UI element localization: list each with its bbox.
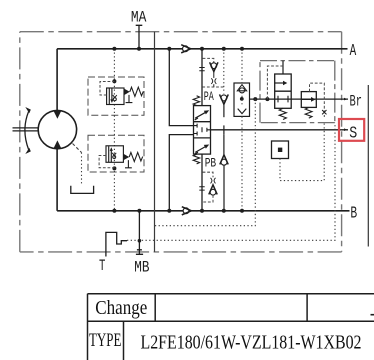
orifice O2 — [211, 178, 216, 184]
wire: top rail A line — [57, 48, 347, 50]
RV1 pilot dashed — [100, 82, 114, 96]
dotted drain net bottom — [154, 99, 255, 226]
top bypass chain (dashed, check + orifice) — [203, 58, 214, 62]
PB line — [201, 154, 203, 211]
V1 bottom spring — [193, 154, 199, 164]
MB port — [136, 211, 143, 255]
svg-text:A: A — [350, 41, 357, 60]
anti-cav chain B side x=224 — [223, 134, 225, 155]
shaft — [13, 128, 39, 131]
node Br junction 1 — [253, 97, 257, 101]
inner dash-dot sub-assembly box (Br valves) — [260, 61, 335, 123]
svg-text:PA: PA — [204, 90, 214, 104]
pilot wire from rail to valve left top — [169, 49, 193, 126]
tank symbol — [71, 186, 94, 194]
Br line — [250, 98, 349, 100]
relief valve enclosure box 2 (dashed) — [88, 135, 144, 172]
MA port — [136, 25, 143, 49]
Br valve2 pilot dashed — [310, 83, 325, 117]
wire: pump up line — [56, 49, 58, 111]
orifice plug component — [272, 141, 289, 159]
relief valve RV1 internals — [107, 88, 124, 105]
svg-text:PB: PB — [205, 156, 217, 170]
check valve on bottom rail — [182, 207, 192, 215]
svg-text:Change: Change — [95, 298, 147, 319]
dotted drain from plug — [280, 123, 324, 181]
check valve CV6 — [210, 189, 216, 195]
S line — [211, 129, 349, 131]
adjacent sheet frame line — [367, 85, 369, 247]
Br valve1 spring below — [279, 108, 286, 119]
shuttle valve — [234, 83, 250, 116]
outer enclosure phantom border — [20, 32, 342, 252]
V1 middle cell blocked ports — [194, 124, 211, 136]
check valve CV5 — [221, 159, 227, 165]
Br valve2 spring below — [305, 107, 312, 118]
V1 bottom cell arrow — [195, 146, 206, 152]
node Br junction 2 — [265, 97, 269, 101]
check valve CV4 — [221, 95, 227, 101]
main dotted pilot line x=114.4 — [113, 49, 115, 211]
orifice on PB line — [199, 187, 204, 190]
orifice on PA line — [199, 68, 204, 71]
check valve on top rail — [181, 45, 191, 53]
RV2 drain — [125, 160, 132, 168]
svg-text:S: S — [349, 124, 357, 143]
check valve CV3 — [211, 63, 217, 69]
wire: pump down line — [56, 149, 58, 211]
Br valve1 pilot dashed — [267, 66, 283, 99]
case drain dotted — [73, 144, 82, 153]
shuttle dotted feeds — [241, 49, 243, 84]
port S label + red box — [339, 119, 364, 141]
port Br label — [344, 98, 348, 101]
svg-text:L2FE180/61W-VZL181-W1XB02: L2FE180/61W-VZL181-W1XB02 — [141, 331, 362, 353]
directional valve V1 — [194, 106, 211, 155]
motor arrow bottom — [53, 140, 61, 148]
bottom bypass chain x=213 — [203, 172, 213, 177]
V1 top spring — [193, 96, 199, 106]
Br valve 1 (reducing) — [275, 74, 292, 108]
svg-text:MB: MB — [134, 258, 149, 276]
Br valve 2 — [301, 92, 316, 108]
RV2 spring — [129, 152, 142, 161]
RV1 spring — [130, 87, 143, 96]
RV1 drain — [126, 95, 133, 103]
title block — [88, 294, 374, 360]
svg-text:Br: Br — [350, 92, 363, 110]
relief valve enclosure box 1 (dashed) — [88, 77, 144, 115]
V1 top cell arrow — [195, 112, 206, 118]
pilot wire valve left bottom to rail — [169, 135, 193, 211]
rotation arrow — [25, 112, 29, 150]
svg-text:T: T — [99, 257, 105, 275]
svg-text:B: B — [350, 204, 357, 223]
RV2 pilot dashed — [99, 156, 114, 168]
anti-cav chain A side x=224 — [223, 49, 225, 94]
T port — [106, 232, 127, 256]
svg-text:MA: MA — [131, 9, 147, 27]
motor arrow top — [53, 111, 61, 119]
PA line — [201, 49, 203, 106]
RV2 check triangle — [123, 154, 129, 161]
relief valve RV2 internals — [106, 146, 123, 163]
orifice O1 — [211, 78, 216, 84]
RV1 check triangle — [124, 89, 130, 96]
svg-text:TYPE: TYPE — [89, 331, 121, 351]
wire: bottom rail B line — [57, 210, 349, 212]
wire: center tank line — [154, 32, 156, 252]
pump/motor M1 — [38, 110, 76, 148]
